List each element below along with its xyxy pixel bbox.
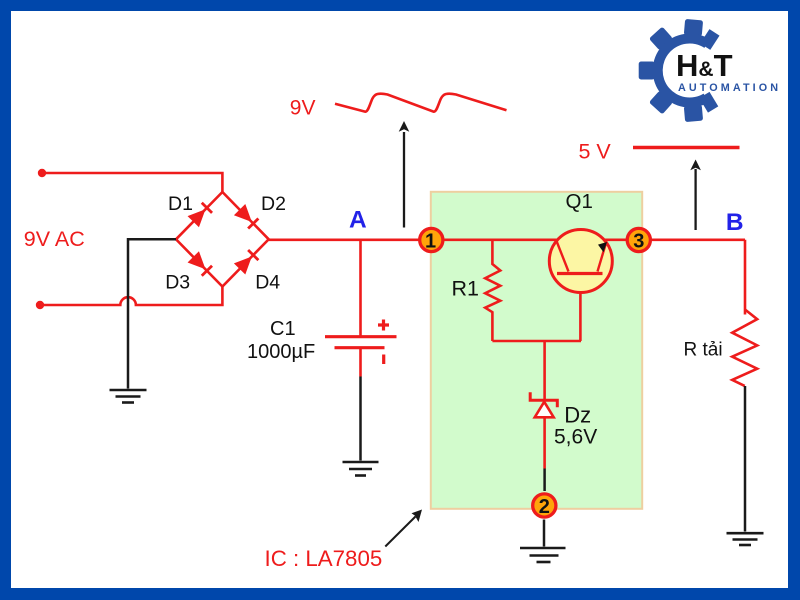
- svg-text:B: B: [726, 209, 744, 236]
- svg-text:AUTOMATION: AUTOMATION: [678, 82, 781, 94]
- svg-text:5 V: 5 V: [579, 139, 612, 163]
- svg-text:2: 2: [539, 496, 550, 518]
- svg-text:IC : LA7805: IC : LA7805: [265, 546, 383, 571]
- svg-text:9V AC: 9V AC: [24, 227, 85, 251]
- svg-text:C1: C1: [270, 318, 296, 340]
- svg-text:R1: R1: [452, 276, 479, 300]
- svg-text:D4: D4: [255, 272, 280, 294]
- svg-text:1: 1: [425, 230, 436, 252]
- svg-text:R tải: R tải: [684, 340, 723, 361]
- svg-text:D1: D1: [168, 193, 193, 215]
- svg-text:5,6V: 5,6V: [554, 426, 597, 449]
- svg-text:Q1: Q1: [566, 190, 593, 213]
- svg-text:3: 3: [633, 230, 644, 252]
- svg-text:1000µF: 1000µF: [247, 341, 315, 363]
- svg-text:A: A: [349, 207, 367, 234]
- svg-text:D3: D3: [165, 272, 190, 294]
- svg-text:9V: 9V: [290, 97, 316, 120]
- svg-text:Dz: Dz: [564, 403, 591, 428]
- svg-text:D2: D2: [261, 193, 286, 215]
